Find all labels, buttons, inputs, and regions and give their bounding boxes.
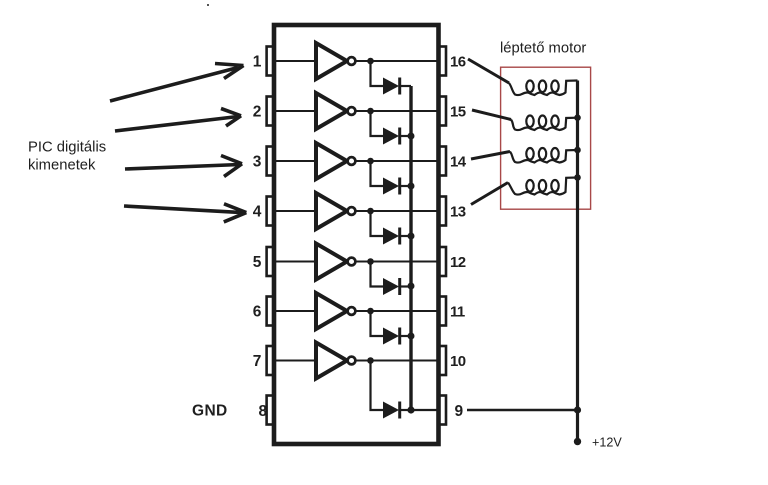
node: COM bus to pin 9 line: [407, 406, 414, 413]
motor coil L1: [509, 81, 578, 96]
pin 4 package lead: [267, 197, 274, 226]
wire: output 1 down to diode D1: [371, 61, 384, 86]
wire: pin 3 to inverter 3 input: [276, 160, 316, 162]
inverter A7 output bubble: [348, 357, 356, 365]
arrow 1: PIC output to pin 1: [110, 64, 244, 102]
pin 6 package lead: [267, 297, 274, 326]
pin 10 package lead: [439, 346, 446, 375]
pin 16 package lead: [439, 47, 446, 76]
svg-text:8: 8: [259, 403, 268, 420]
wire: inverter A1 output to pin 16: [355, 60, 436, 62]
inverter A1 output bubble: [348, 57, 356, 65]
wire: inverter A2 output to pin 15: [355, 110, 436, 112]
node: output junction row 6: [367, 308, 374, 315]
wire: inverter A5 output to pin 12: [355, 261, 436, 263]
pin 5 package lead: [267, 247, 274, 276]
node: output junction row 3: [367, 158, 374, 165]
node: pin 9 junction on +12V bus: [574, 406, 581, 413]
motor coil L4: [508, 178, 578, 195]
svg-text:16: 16: [450, 53, 466, 70]
pin 2 package lead: [267, 97, 274, 126]
pin 11 package lead: [439, 297, 446, 326]
wire: pin 9 to +12V bus: [467, 409, 578, 412]
inverter A5 output bubble: [348, 258, 356, 266]
inverter A3 output bubble: [348, 157, 356, 165]
wire: diode D2 cathode to COM bus: [400, 135, 411, 137]
svg-text:PIC digitális: PIC digitális: [28, 139, 106, 155]
arrow 3: PIC output to pin 3: [125, 156, 242, 177]
wire: pin 14 to coil L3: [471, 152, 510, 160]
node: coil junction on +12V bus y=150: [574, 147, 581, 154]
svg-text:léptető motor: léptető motor: [500, 40, 586, 56]
wire: +12V bus: [576, 81, 579, 442]
svg-text:13: 13: [450, 203, 466, 220]
node: COM bus junction y=336: [408, 333, 415, 340]
svg-text:3: 3: [253, 154, 262, 171]
wire: pin 2 to inverter 2 input: [276, 110, 316, 112]
wire: pin 15 to coil L2: [472, 110, 511, 120]
pin 8 package lead: [267, 396, 274, 425]
wire: inverter A3 output to pin 14: [355, 160, 436, 162]
svg-text:11: 11: [450, 303, 465, 320]
diode D6 (flyback, anode left): [383, 328, 399, 345]
stepper motor outline (red box): [501, 67, 591, 209]
wire: diode D7 cathode to COM bus: [400, 409, 411, 411]
stray speck: [207, 4, 209, 6]
wire: pin 4 to inverter 4 input: [276, 210, 316, 212]
wire: diode D1 cathode to COM bus: [400, 85, 411, 87]
wire: inverter A6 output to pin 11: [355, 310, 436, 312]
inverter A6 output bubble: [348, 307, 356, 315]
svg-text:kimenetek: kimenetek: [28, 157, 96, 173]
pin 9 package lead: [439, 396, 446, 425]
node: +12V terminal: [574, 438, 581, 445]
inverter/driver A7 triangle: [316, 343, 347, 379]
svg-text:14: 14: [450, 153, 467, 170]
wire: output 2 down to diode D2: [371, 111, 384, 136]
wire: output 4 down to diode D4: [371, 211, 384, 236]
wire: pin 16 to coil L1: [468, 59, 509, 83]
inverter/driver A6 triangle: [316, 293, 347, 329]
node: COM bus junction y=186: [408, 183, 415, 190]
inverter/driver A3 triangle: [316, 143, 347, 179]
wire: diode D3 cathode to COM bus: [400, 185, 411, 187]
node: output junction row 5: [367, 258, 374, 265]
wire: output 7 down to diode D7: [371, 361, 384, 411]
svg-text:4: 4: [253, 204, 262, 221]
wire: diode D4 cathode to COM bus: [400, 235, 411, 237]
pin 3 package lead: [267, 147, 274, 176]
wire: output 5 down to diode D5: [371, 262, 384, 287]
node: coil junction on +12V bus y=177.5: [574, 174, 581, 181]
wire: inverter A7 output to pin 10: [355, 360, 436, 362]
node: COM bus junction y=136: [408, 133, 415, 140]
wire: internal COM bus (diode common): [409, 86, 412, 410]
wire: pin 6 to inverter 6 input: [276, 310, 316, 312]
diode D1 (flyback, anode left): [383, 78, 399, 95]
svg-text:1: 1: [253, 54, 262, 71]
motor coil L3: [510, 148, 578, 163]
diode D7 (flyback, anode left): [383, 402, 399, 419]
diode D3 (flyback, anode left): [383, 178, 399, 195]
arrow 2: PIC output to pin 2: [115, 109, 241, 132]
node: output junction row 4: [367, 208, 374, 215]
wire: inverter A4 output to pin 13: [355, 210, 436, 212]
svg-text:2: 2: [253, 104, 262, 121]
pin 15 package lead: [439, 97, 446, 126]
node: coil junction on +12V bus y=117.7: [574, 114, 581, 121]
diode D5 (flyback, anode left): [383, 278, 399, 295]
svg-text:6: 6: [253, 304, 262, 321]
svg-text:12: 12: [450, 254, 466, 271]
wire: output 3 down to diode D3: [371, 161, 384, 186]
node: output junction row 2: [367, 108, 374, 115]
node: output junction row 1: [367, 58, 374, 65]
node: COM bus junction y=286: [408, 283, 415, 290]
svg-text:GND: GND: [192, 403, 228, 420]
motor coil L2: [511, 116, 578, 131]
pin 7 package lead: [267, 346, 274, 375]
svg-text:9: 9: [455, 403, 464, 420]
pin 12 package lead: [439, 247, 446, 276]
svg-text:10: 10: [450, 353, 466, 370]
svg-text:15: 15: [450, 103, 466, 120]
pin 1 package lead: [267, 47, 274, 76]
node: output junction row 7: [367, 357, 374, 364]
inverter A4 output bubble: [348, 207, 356, 215]
pin 14 package lead: [439, 147, 446, 176]
wire: COM junction to pin 9: [411, 409, 437, 411]
inverter/driver A2 triangle: [316, 93, 347, 129]
wire: output 6 down to diode D6: [371, 311, 384, 336]
wire: pin 7 to inverter 7 input: [276, 360, 316, 362]
inverter/driver A4 triangle: [316, 193, 347, 229]
pin 13 package lead: [439, 197, 446, 226]
inverter/driver A1 triangle: [316, 43, 347, 79]
diode D4 (flyback, anode left): [383, 228, 399, 245]
IC body U1 (ULN2003 driver, 16-pin DIP outline): [274, 25, 439, 444]
wire: diode D5 cathode to COM bus: [400, 285, 411, 287]
svg-text:+12V: +12V: [592, 435, 622, 449]
wire: pin 5 to inverter 5 input: [276, 261, 316, 263]
diode D2 (flyback, anode left): [383, 128, 399, 145]
inverter A2 output bubble: [348, 107, 356, 115]
svg-text:5: 5: [253, 254, 262, 271]
wire: pin 1 to inverter 1 input: [276, 60, 316, 62]
arrow 4: PIC output to pin 4: [124, 204, 246, 222]
inverter/driver A5 triangle: [316, 244, 347, 280]
wire: diode D6 cathode to COM bus: [400, 335, 411, 337]
svg-text:7: 7: [253, 353, 262, 370]
node: COM bus junction y=236: [408, 233, 415, 240]
wire: pin 13 to coil L4: [471, 183, 508, 205]
